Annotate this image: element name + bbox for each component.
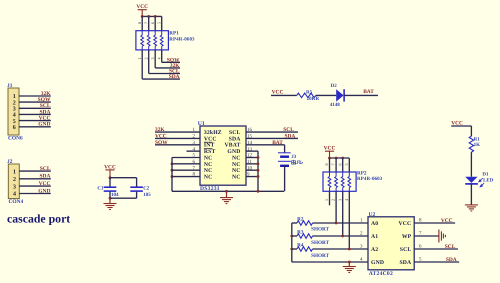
svg-text:NC: NC [204, 168, 213, 174]
svg-text:SCL: SCL [283, 127, 294, 133]
svg-text:1: 1 [137, 57, 142, 59]
svg-text:VCC: VCC [204, 136, 217, 142]
svg-text:NC: NC [232, 168, 241, 174]
svg-text:SCL: SCL [40, 103, 51, 109]
svg-text:SCL: SCL [229, 130, 241, 136]
svg-text:SDA: SDA [399, 260, 412, 266]
svg-text:NC: NC [232, 162, 241, 168]
svg-text:BAT: BAT [363, 89, 374, 95]
svg-text:5: 5 [156, 22, 161, 24]
svg-text:1K: 1K [474, 142, 481, 148]
svg-text:WP: WP [402, 234, 412, 240]
svg-text:5: 5 [344, 163, 349, 165]
svg-text:1: 1 [13, 94, 16, 100]
svg-text:GND: GND [38, 188, 50, 194]
svg-text:SDA: SDA [39, 174, 50, 180]
svg-text:8: 8 [324, 163, 329, 165]
svg-text:GND: GND [38, 122, 50, 128]
svg-text:SHORT: SHORT [311, 240, 330, 246]
svg-text:VCC: VCC [399, 221, 412, 227]
svg-text:104: 104 [111, 192, 119, 198]
svg-text:LED: LED [483, 178, 494, 184]
svg-text:VCC: VCC [39, 181, 51, 187]
svg-text:32kHZ: 32kHZ [204, 130, 222, 136]
svg-text:4148: 4148 [330, 102, 341, 108]
svg-text:RP1: RP1 [169, 30, 179, 36]
svg-text:105: 105 [143, 192, 151, 198]
svg-text:NC: NC [204, 155, 213, 161]
svg-text:7: 7 [143, 22, 148, 24]
svg-text:SHORT: SHORT [311, 253, 330, 259]
svg-text:SCL: SCL [400, 247, 412, 253]
svg-text:A0: A0 [371, 221, 378, 227]
svg-text:J3: J3 [291, 154, 297, 160]
svg-text:RP4R-0603: RP4R-0603 [357, 176, 383, 182]
svg-text:NC: NC [232, 174, 241, 180]
svg-text:3: 3 [13, 107, 16, 113]
svg-text:VCC: VCC [441, 218, 453, 224]
svg-text:D1: D1 [482, 172, 489, 178]
svg-text:C2: C2 [143, 186, 150, 192]
svg-text:VCC: VCC [272, 89, 284, 95]
svg-text:32K: 32K [41, 91, 52, 97]
svg-text:R5: R5 [306, 89, 313, 95]
svg-text:SDA: SDA [229, 136, 242, 142]
svg-text:1: 1 [13, 169, 16, 175]
svg-text:SCL: SCL [445, 244, 456, 250]
svg-text:NC: NC [204, 162, 213, 168]
svg-text:D2: D2 [331, 83, 338, 89]
svg-text:BAT: BAT [272, 140, 283, 146]
svg-text:6: 6 [13, 125, 16, 131]
svg-text:SDA: SDA [169, 74, 180, 80]
svg-text:3: 3 [337, 199, 342, 201]
svg-text:2: 2 [13, 177, 16, 183]
svg-text:A2: A2 [371, 247, 378, 253]
svg-text:R2: R2 [297, 217, 304, 223]
svg-text:SDA: SDA [285, 134, 296, 140]
svg-text:20KR: 20KR [307, 96, 320, 102]
svg-text:GND: GND [227, 149, 240, 155]
svg-text:SDA: SDA [446, 257, 457, 263]
svg-text:2: 2 [143, 57, 148, 59]
svg-text:NC: NC [204, 174, 213, 180]
svg-text:R1: R1 [474, 136, 481, 142]
svg-text:SHORT: SHORT [311, 227, 330, 233]
svg-text:AT24C02: AT24C02 [369, 271, 393, 277]
svg-text:VCC: VCC [155, 134, 167, 140]
svg-text:CON6: CON6 [8, 136, 23, 142]
svg-text:R4: R4 [297, 243, 304, 249]
svg-text:RP2: RP2 [357, 171, 367, 177]
svg-text:C1: C1 [97, 186, 104, 192]
svg-text:2: 2 [13, 100, 16, 106]
svg-text:7: 7 [331, 163, 336, 165]
svg-text:INT: INT [204, 143, 215, 149]
svg-text:RP4R-0603: RP4R-0603 [169, 37, 195, 43]
svg-text:6: 6 [150, 22, 155, 24]
svg-text:cascade port: cascade port [7, 211, 70, 225]
svg-text:32K: 32K [155, 127, 165, 133]
svg-text:SDA: SDA [39, 109, 50, 115]
svg-text:SQW: SQW [155, 140, 168, 146]
svg-text:4: 4 [13, 192, 16, 198]
svg-text:NC: NC [232, 155, 241, 161]
svg-text:SCL: SCL [40, 166, 51, 172]
svg-text:3: 3 [13, 184, 16, 190]
svg-text:8: 8 [137, 22, 142, 24]
svg-text:3: 3 [150, 57, 155, 59]
svg-text:GND: GND [371, 260, 384, 266]
svg-text:R3: R3 [297, 230, 304, 236]
svg-text:SQW: SQW [38, 97, 51, 103]
svg-text:RST: RST [204, 149, 216, 155]
svg-text:CON4: CON4 [9, 199, 24, 205]
svg-text:A1: A1 [371, 234, 378, 240]
svg-text:5: 5 [13, 119, 16, 125]
svg-text:6: 6 [337, 163, 342, 165]
svg-text:VCC: VCC [39, 116, 51, 122]
svg-text:4: 4 [13, 113, 16, 119]
svg-text:VBAT: VBAT [225, 143, 241, 149]
svg-text:1: 1 [324, 199, 329, 201]
svg-text:2: 2 [331, 199, 336, 201]
